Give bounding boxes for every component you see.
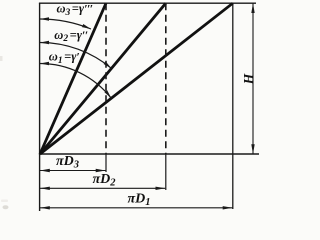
dashed vertical at pi*D3 — [105, 3, 107, 154]
helix line omega3 (steepest) — [40, 3, 106, 154]
faint mark left edge — [0, 56, 3, 61]
solid extension below rect at x=166 — [165, 154, 167, 190]
rectangle top edge — [39, 2, 256, 4]
dimension line pi*D2 — [40, 187, 165, 190]
angle arc omega1 (r=90.5) — [40, 62, 111, 98]
angle arc omega3 (r=135) — [40, 17, 91, 29]
rectangle left edge / extension line — [39, 3, 41, 211]
label H (rotated) — [241, 73, 256, 85]
dashed vertical at pi*D2 — [165, 3, 167, 154]
dimension line pi*D3 — [40, 169, 106, 172]
rectangle bottom edge — [39, 153, 259, 155]
helix line omega2 (middle) — [40, 3, 166, 154]
svg-text:ω3=γ′′′: ω3=γ′′′ — [57, 2, 93, 18]
svg-text:ω2=γ′′: ω2=γ′′ — [54, 28, 87, 44]
svg-text:H: H — [241, 73, 256, 85]
dimension line H (vertical right) — [251, 3, 254, 154]
solid extension below rect at x=106 — [105, 154, 107, 172]
faint smudge bottom-left (blob) — [3, 205, 9, 209]
svg-text:ω1=γ′: ω1=γ′ — [49, 50, 80, 66]
faint smudge bottom-left (streak) — [1, 200, 8, 203]
angle arc omega2 (r=111.5) — [40, 41, 112, 69]
helix line omega1 (shallow, to corner) — [40, 3, 233, 154]
dimension line pi*D1 — [40, 206, 233, 209]
rectangle right edge / extension line — [232, 3, 234, 209]
